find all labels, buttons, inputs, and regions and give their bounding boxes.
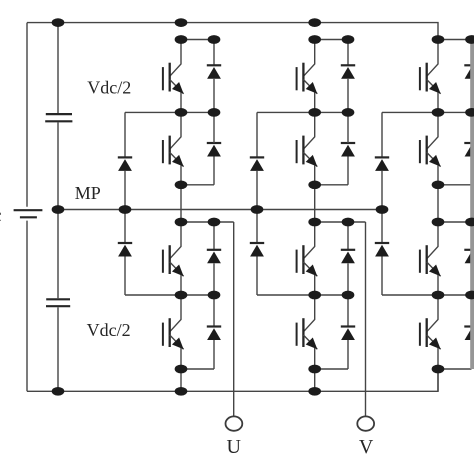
wire D-column upper w [471,40,473,66]
node T1w-T2w junction [432,108,445,117]
svg-text:U: U [227,436,242,458]
terminal V circle [357,416,374,430]
wire D3v to n3 [347,263,349,295]
diode D1u (antiparallel T1) [207,65,221,79]
node T3v collector [308,218,321,227]
wire n2 to D3w [471,222,473,250]
dc source Vdc (cell symbol) [14,210,43,217]
wire D5w to MP [381,171,383,210]
wire left source rail (lower) [26,221,28,392]
node DC- bus / leg V [308,387,321,396]
node D3v-D4v junction [342,291,355,300]
wire n2 output row v [315,221,366,223]
wire clamp column upper w [381,112,383,157]
wire phase row v [315,184,348,186]
node MP / clamp U [119,205,132,214]
node D1u-D2u junction [208,108,221,117]
wire D3w to n3 [471,263,473,295]
wire phase row w [438,184,472,186]
wire MP rail [58,209,382,211]
diode D3w (antiparallel T3) [464,250,474,263]
wire n3 row u [125,294,214,296]
diode D5w (clamp upper) [375,157,389,171]
capacitor C1 [45,114,72,121]
wire D-column w clipped edge band [470,40,474,370]
diode D3u (antiparallel T3) [207,250,221,263]
wire D5u to MP [124,171,126,210]
diode D4v (antiparallel T4) [341,327,355,341]
transistor T4u (IGBT) [163,295,184,369]
transistor T2v (IGBT) [297,112,318,184]
wire phase link v (crosses MP) [314,185,316,222]
wire leg V collector row [315,39,348,41]
node DC+ bus / leg U [175,18,188,27]
svg-text:Vdc/2: Vdc/2 [87,78,131,98]
wire n1 to D2u [213,112,215,143]
wire C2 to bottom bus [57,307,59,391]
node MP / clamp V [251,205,264,214]
wire MP to C2 [57,210,59,299]
transistor T3w (IGBT) [420,222,441,295]
wire D6u to n3 row [124,257,126,296]
wire D-column upper v [347,40,349,66]
transistor T1w (IGBT) [420,40,441,113]
capacitor C2 [46,299,70,306]
node T3v-T4v junction [308,291,321,300]
node T1v-T2v junction [308,108,321,117]
wire n1 to D2w [471,112,473,143]
node D3w anode tap [465,218,474,227]
transistor T4w (IGBT) [420,295,441,369]
node D1u cathode [208,35,221,44]
wire n1 row w [382,111,472,113]
wire emitter row u [181,368,214,370]
wire D1w to n1 [471,79,473,113]
wire MP to D6u [124,210,126,244]
node T1v collector [308,35,321,44]
wire D1u to n1 [213,79,215,113]
node D3w-D4w junction [465,291,474,300]
node DC+ bus / dc-link [52,18,65,27]
node T3u-T4u junction [175,291,188,300]
node T3w collector [432,218,445,227]
diode D2u (antiparallel T2) [207,143,221,157]
diode D1w (antiparallel T1) [464,65,474,79]
node MP / clamp W [376,205,389,214]
wire output V drop [365,222,367,416]
wire D-column upper u [213,40,215,66]
wire clamp column upper v [256,112,258,157]
wire leg w to bottom bus [437,369,439,391]
node T1u collector [175,35,188,44]
diode D6u (clamp lower) [118,243,132,257]
wire D2v to phase row [347,157,349,185]
wire emitter row w [438,368,472,370]
diode D5v (clamp upper) [250,157,264,171]
node DC+ bus / leg V [308,18,321,27]
wire n3 row v [257,294,348,296]
transistor T2u (IGBT) [163,112,184,184]
wire D6w to n3 row [381,257,383,296]
wire leg W collector row [438,39,472,41]
wire DC- bottom bus [27,369,438,391]
wire phase row u [181,184,214,186]
wire n2 output row w [438,221,474,223]
svg-text:MP: MP [75,183,101,203]
wire MP to D6v [256,210,258,244]
node phase V (T2v emitter) [308,180,321,189]
wire left source rail (upper) [26,23,28,207]
node T4v emitter [308,365,321,374]
node T4w emitter [432,365,445,374]
wire n1 row v [257,111,348,113]
transistor T1v (IGBT) [297,40,318,113]
node T1w collector [432,35,445,44]
wire phase link u (crosses MP) [180,185,182,222]
wire n3 to D4w [471,295,473,327]
diode D3v (antiparallel T3) [341,250,355,263]
wire DC+ top bus [27,23,438,40]
wire D4w to emitter row [471,340,473,369]
node T4u emitter [175,365,188,374]
node D3v anode tap [342,218,355,227]
node D3u-D4u junction [208,291,221,300]
transistor T2w (IGBT) [420,112,441,184]
node D1w cathode [465,35,474,44]
node D1v cathode [342,35,355,44]
svg-text:c: c [0,205,2,225]
node DC- bus / leg U [175,387,188,396]
diode D2v (antiparallel T2) [341,143,355,157]
transistor T3v (IGBT) [297,222,318,295]
wire n1 row u [125,111,214,113]
wire n3 to D4v [347,295,349,327]
node DC- bus / dc-link [52,387,65,396]
node MP / dc-link [52,205,65,214]
wire n2 to D3v [347,222,349,250]
diode D5u (clamp upper) [118,157,132,171]
wire phase link w (crosses MP) [437,185,439,222]
wire n2 to D3u [213,222,215,250]
svg-text:Vdc/2: Vdc/2 [87,320,131,340]
wire C1 to MP [57,122,59,209]
diode D4w (antiparallel T4) [464,327,474,341]
transistor T4v (IGBT) [297,295,318,369]
wire D3u to n3 [213,263,215,295]
node D1w-D2w junction [465,108,474,117]
node phase U (T2u emitter) [175,180,188,189]
wire D4v to emitter row [347,340,349,369]
wire n1 to D2v [347,112,349,143]
wire D4u to emitter row [213,340,215,369]
node T3w-T4w junction [432,291,445,300]
wire D2w to phase row [471,157,473,185]
diode D6w (clamp lower) [375,243,389,257]
wire leg u to bottom bus [180,369,182,391]
node D3u anode tap [208,218,221,227]
node T1u-T2u junction [175,108,188,117]
wire n3 row w [382,294,472,296]
wire leg v to bottom bus [314,369,316,391]
wire emitter row v [315,368,348,370]
node phase W (T2w emitter) [432,180,445,189]
transistor T1u (IGBT) [163,40,184,113]
wire MP to D6w [381,210,383,244]
diode D6v (clamp lower) [250,243,264,257]
wire dc-link column upper [57,23,59,113]
wire D6v to n3 row [256,257,258,296]
wire n2 output row u [181,221,234,223]
wire leg U collector row [181,39,214,41]
wire D2u to phase row [213,157,215,185]
wire D5v to MP [256,171,258,210]
transistor T3u (IGBT) [163,222,184,295]
wire output U drop [233,222,235,416]
wire clamp column upper u [124,112,126,157]
wire D1v to n1 [347,79,349,113]
diode D2w (antiparallel T2) [464,143,474,157]
node D1v-D2v junction [342,108,355,117]
svg-text:V: V [359,436,374,458]
wire n3 to D4u [213,295,215,327]
terminal U circle [226,416,243,430]
node T3u collector [175,218,188,227]
diode D4u (antiparallel T4) [207,327,221,341]
diode D1v (antiparallel T1) [341,65,355,79]
